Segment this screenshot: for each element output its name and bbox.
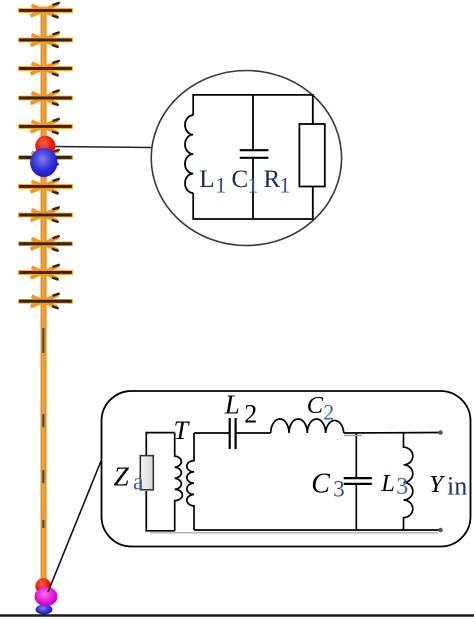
svg-text:R: R [264, 166, 281, 193]
svg-text:T: T [174, 415, 191, 445]
svg-text:3: 3 [396, 474, 408, 500]
svg-text:Y: Y [429, 471, 445, 498]
svg-text:C: C [307, 392, 324, 419]
svg-text:3: 3 [333, 477, 345, 502]
svg-text:1: 1 [215, 173, 226, 198]
svg-text:1: 1 [279, 173, 290, 198]
svg-text:1: 1 [247, 173, 258, 198]
svg-text:L: L [199, 166, 214, 193]
svg-text:in: in [447, 472, 467, 501]
svg-text:a: a [133, 469, 144, 495]
svg-text:2: 2 [323, 400, 334, 425]
svg-text:L: L [380, 470, 395, 497]
svg-text:2: 2 [244, 400, 257, 429]
svg-text:Z: Z [114, 461, 130, 492]
svg-text:L: L [224, 390, 240, 420]
svg-text:C: C [311, 468, 330, 499]
svg-text:C: C [232, 166, 249, 193]
